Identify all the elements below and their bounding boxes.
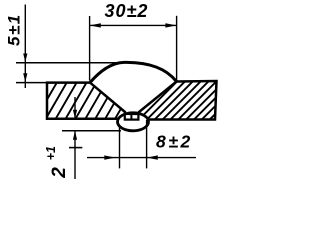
tick on 2+1 line — [69, 147, 82, 149]
dimension line 5±1 (vertical) — [24, 5, 26, 89]
root gap slot — [130, 115, 132, 120]
svg-text:8±2: 8±2 — [156, 132, 193, 152]
weld cap outline — [90, 62, 177, 82]
svg-text:+1: +1 — [44, 146, 58, 160]
arrow right — [165, 23, 176, 27]
right plate outline (top, right edge, bottom, root face, bevel) — [139, 81, 217, 120]
arrow left — [90, 23, 101, 27]
svg-text:30±2: 30±2 — [105, 1, 149, 21]
root bead bottom tangent line (extension for 2+1) — [62, 130, 121, 132]
dimension line 2+1 lower part — [74, 131, 76, 179]
root bead (penetration bead) — [118, 113, 149, 131]
right plate hatching — [137, 79, 259, 122]
left plate outline (top, bevel, root face, bottom, left edge) — [47, 83, 125, 119]
arrow to cap top line — [23, 54, 27, 63]
left plate hatching — [35, 80, 148, 121]
plate top extension line (for 5±1) — [16, 82, 47, 84]
arrow to right extension (outside, pointing left) — [147, 155, 158, 159]
arrow up to bead bottom line — [73, 131, 77, 140]
cap top tangent line (extension for 5±1) — [16, 62, 126, 64]
arrow down to plate bottom — [73, 110, 77, 119]
root gap rectangle — [125, 114, 139, 120]
dimension line 30±2 — [90, 24, 177, 26]
extension line left (30±2) — [89, 16, 91, 81]
extension line right (30±2) — [176, 16, 178, 81]
extension line left (8±2) — [119, 127, 121, 168]
extension line right (8±2) — [146, 120, 148, 168]
arrow to left extension (outside, pointing right) — [104, 155, 115, 159]
dimension line 2+1 upper part — [74, 97, 76, 118]
arrow to plate top line — [23, 73, 27, 82]
weld cap (face reinforcement) fill — [90, 62, 177, 82]
svg-text:2: 2 — [49, 167, 70, 179]
dimension line 8±2 — [87, 157, 196, 159]
svg-text:5±1: 5±1 — [5, 13, 24, 46]
